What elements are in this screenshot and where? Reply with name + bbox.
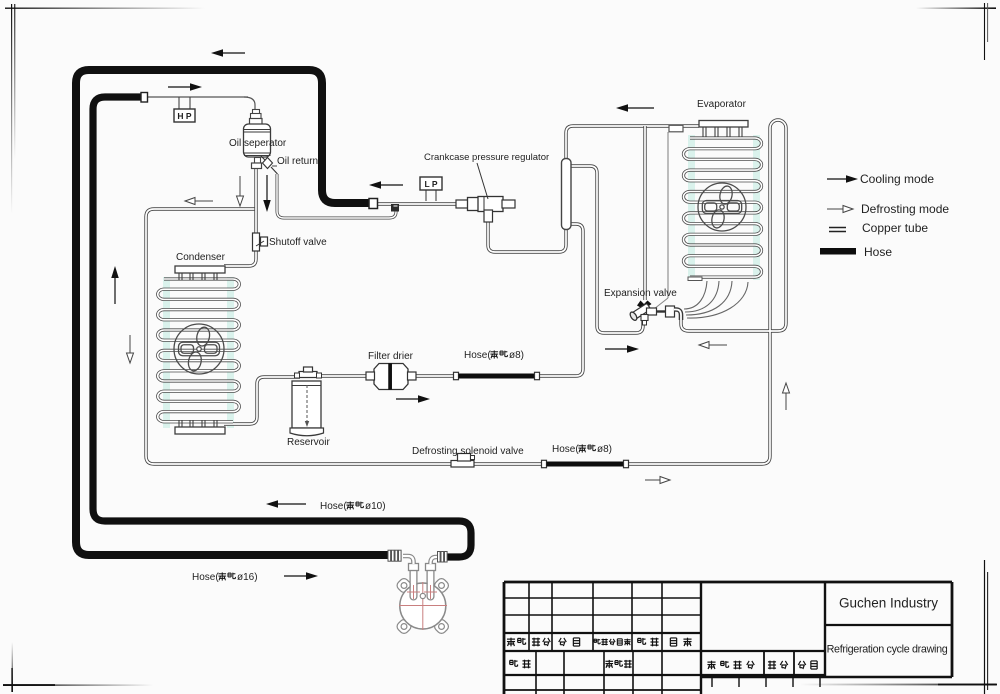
svg-text:Refrigeration cycle drawing: Refrigeration cycle drawing xyxy=(827,644,948,656)
svg-text:Crankcase pressure regulator: Crankcase pressure regulator xyxy=(424,152,549,163)
svg-text:Expansion valve: Expansion valve xyxy=(604,288,677,299)
svg-text:ø10): ø10) xyxy=(365,501,386,512)
svg-text:Hose(: Hose( xyxy=(464,350,491,361)
svg-text:Shutoff valve: Shutoff valve xyxy=(269,237,327,248)
svg-text:Hose(: Hose( xyxy=(320,501,347,512)
svg-text:Defrosting solenoid valve: Defrosting solenoid valve xyxy=(412,446,524,457)
svg-text:Guchen Industry: Guchen Industry xyxy=(839,596,938,611)
svg-text:L P: L P xyxy=(424,179,437,189)
svg-text:H P: H P xyxy=(177,111,192,121)
svg-text:Oil return: Oil return xyxy=(277,156,318,167)
svg-text:Evaporator: Evaporator xyxy=(697,99,747,110)
svg-text:Hose: Hose xyxy=(864,245,892,259)
svg-text:Oil seperator: Oil seperator xyxy=(229,138,287,149)
svg-text:Reservoir: Reservoir xyxy=(287,437,330,448)
svg-text:Copper tube: Copper tube xyxy=(862,221,928,235)
svg-text:Condenser: Condenser xyxy=(176,252,226,263)
svg-text:Hose(: Hose( xyxy=(192,572,219,583)
svg-text:Filter drier: Filter drier xyxy=(368,351,414,362)
svg-text:Cooling mode: Cooling mode xyxy=(860,172,934,186)
svg-text:ø8): ø8) xyxy=(509,350,524,361)
svg-text:Hose(: Hose( xyxy=(552,444,579,455)
svg-text:ø16): ø16) xyxy=(237,572,258,583)
svg-text:Defrosting mode: Defrosting mode xyxy=(861,202,949,216)
svg-text:ø8): ø8) xyxy=(597,444,612,455)
